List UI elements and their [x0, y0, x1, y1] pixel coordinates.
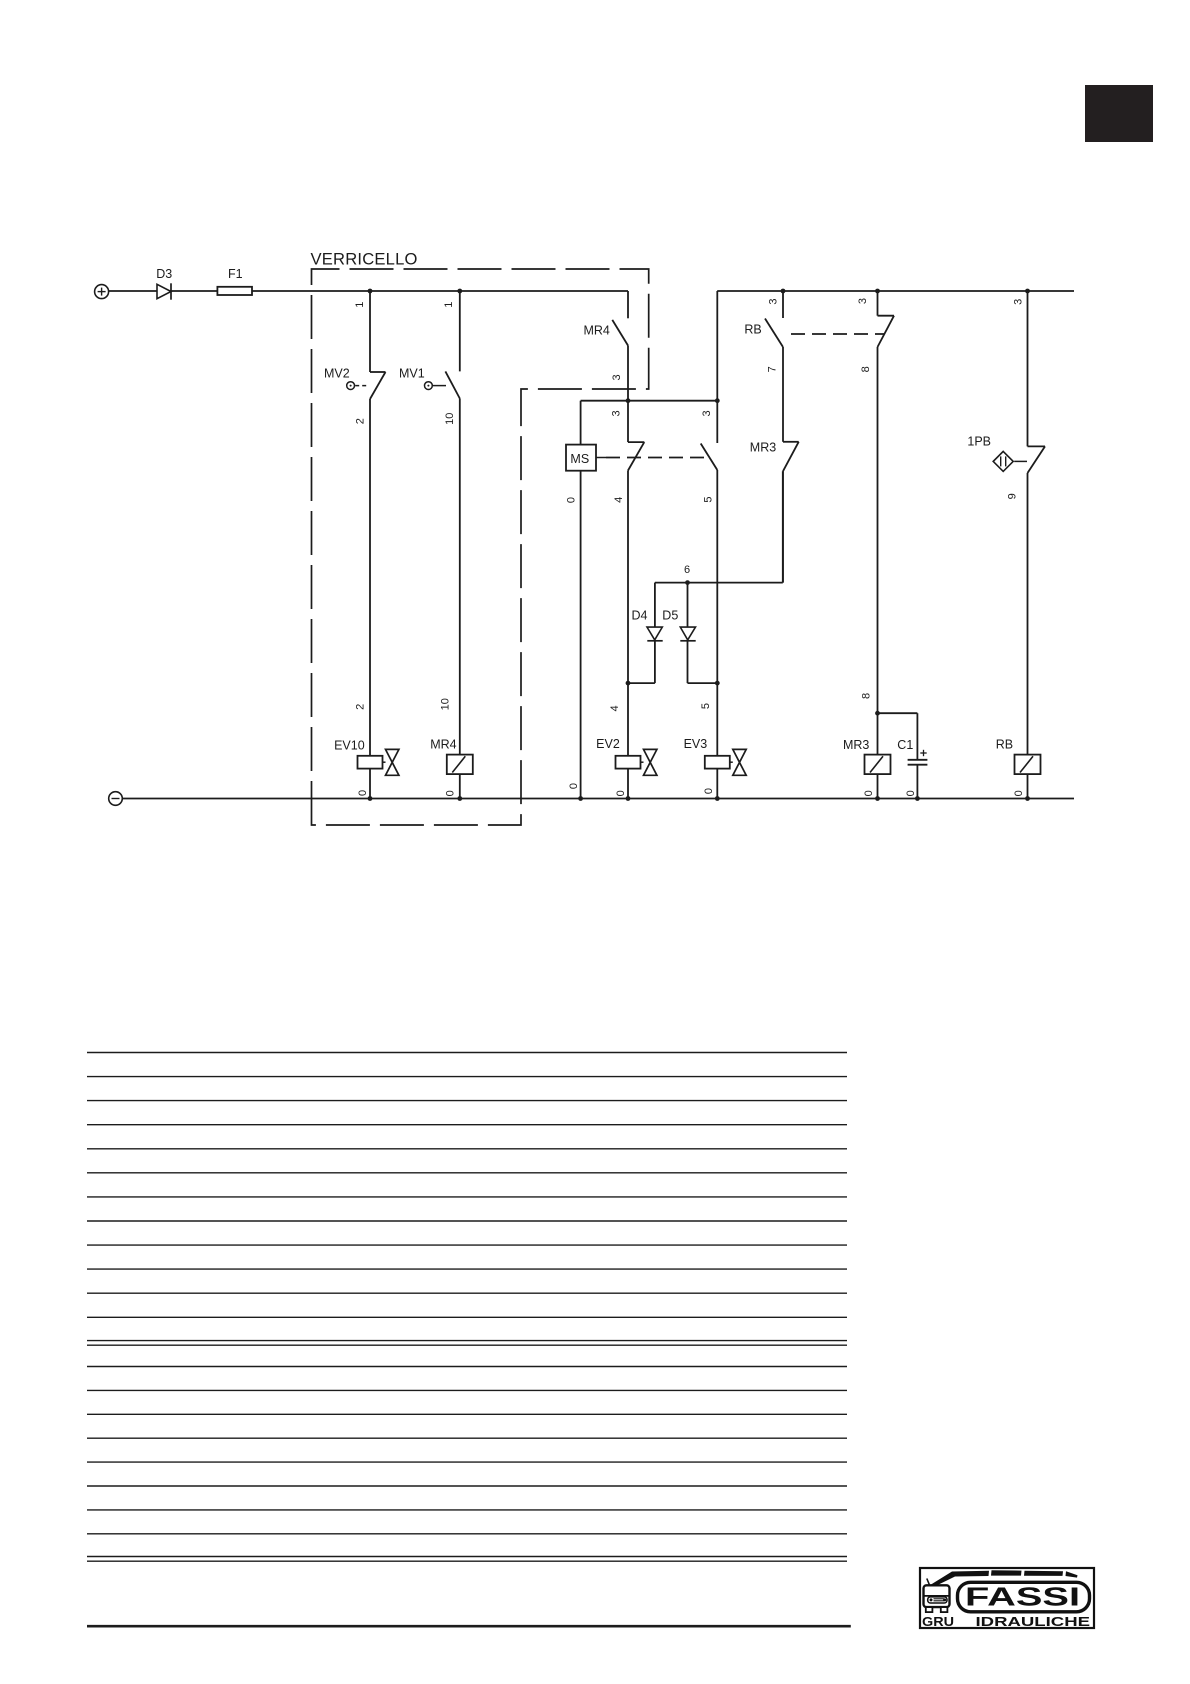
svg-text:0: 0: [565, 497, 577, 503]
svg-text:3: 3: [610, 410, 622, 416]
svg-text:3: 3: [768, 299, 780, 305]
svg-text:IDRAULICHE: IDRAULICHE: [976, 1614, 1091, 1629]
svg-text:8: 8: [860, 693, 872, 699]
svg-text:VERRICELLO: VERRICELLO: [311, 250, 418, 269]
svg-text:EV2: EV2: [596, 737, 620, 751]
svg-text:5: 5: [700, 703, 712, 709]
svg-text:2: 2: [354, 704, 366, 710]
svg-text:F1: F1: [228, 267, 243, 281]
svg-text:MR4: MR4: [583, 323, 609, 337]
svg-text:3: 3: [857, 298, 869, 304]
svg-text:RB: RB: [744, 322, 761, 336]
svg-text:C1: C1: [897, 738, 913, 752]
svg-text:6: 6: [684, 564, 690, 576]
svg-text:7: 7: [767, 366, 779, 372]
svg-text:D5: D5: [662, 609, 678, 623]
svg-text:EV10: EV10: [334, 738, 365, 752]
svg-text:MR3: MR3: [750, 440, 776, 454]
svg-text:GRU: GRU: [922, 1614, 954, 1629]
svg-text:4: 4: [613, 497, 625, 503]
svg-text:8: 8: [860, 366, 872, 372]
svg-text:MR4: MR4: [430, 737, 456, 751]
svg-text:3: 3: [701, 410, 713, 416]
svg-text:5: 5: [702, 496, 714, 502]
svg-text:EV3: EV3: [684, 737, 708, 751]
svg-text:1: 1: [443, 302, 455, 308]
svg-text:0: 0: [445, 790, 457, 796]
svg-text:9: 9: [1006, 493, 1018, 499]
svg-text:0: 0: [905, 790, 917, 796]
svg-text:0: 0: [615, 790, 627, 796]
svg-text:D3: D3: [156, 267, 172, 281]
svg-text:1: 1: [354, 302, 366, 308]
svg-text:D4: D4: [632, 609, 648, 623]
svg-text:MV1: MV1: [399, 366, 425, 380]
svg-text:10: 10: [444, 413, 456, 425]
svg-text:MS: MS: [570, 452, 589, 466]
svg-text:10: 10: [440, 698, 452, 710]
svg-text:0: 0: [357, 790, 369, 796]
svg-text:2: 2: [354, 418, 366, 424]
svg-text:4: 4: [609, 705, 621, 711]
svg-text:MV2: MV2: [324, 366, 350, 380]
svg-text:MR3: MR3: [843, 738, 869, 752]
svg-text:RB: RB: [996, 738, 1013, 752]
svg-text:0: 0: [703, 788, 715, 794]
svg-text:1PB: 1PB: [967, 435, 991, 449]
svg-text:FASSI: FASSI: [965, 1583, 1080, 1611]
svg-text:0: 0: [568, 783, 580, 789]
svg-text:3: 3: [611, 374, 623, 380]
svg-text:0: 0: [1013, 790, 1025, 796]
svg-text:0: 0: [863, 790, 875, 796]
svg-text:3: 3: [1012, 299, 1024, 305]
